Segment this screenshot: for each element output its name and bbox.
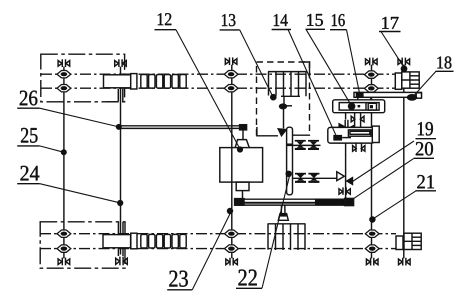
steering box funnel [235, 140, 249, 148]
brake glyph front-left inner [115, 59, 127, 67]
leader 24 [40, 184, 120, 203]
brake glyph above drag link end [339, 187, 350, 194]
leader 26 [40, 108, 119, 127]
drag link upper line [235, 198, 353, 200]
bracket double line rear-left [118, 222, 123, 256]
axle center line front upper [41, 73, 396, 75]
axle center line front lower [41, 87, 396, 89]
control bar (16/18) [354, 92, 422, 101]
leader 17 [381, 32, 404, 67]
wheel symbol A1 [295, 140, 306, 150]
node dot 21 [369, 216, 375, 222]
leader 12 [176, 30, 240, 149]
wire dashed-box bottom to arrow [257, 127, 278, 136]
node dot 24 [117, 200, 123, 206]
lower valve (14) [328, 126, 379, 143]
tie rod (front) [119, 126, 240, 129]
flow divider diamonds rear-right [365, 230, 379, 252]
label 12 [155, 13, 177, 30]
motor front-right body [402, 72, 419, 88]
drag link thick right segment [315, 199, 352, 205]
leader 16 [347, 30, 360, 95]
stems below lower valve with brake glyph [356, 143, 362, 152]
label 22 [236, 270, 262, 289]
label 16 [330, 14, 347, 30]
wheel symbol B1 [295, 173, 306, 183]
label 17 [379, 17, 401, 32]
brake glyph front-right [366, 58, 378, 66]
flow divider diamonds front-center [224, 71, 238, 92]
row line A [287, 144, 321, 146]
drag link left cap [235, 199, 244, 206]
node dot 13 [270, 94, 277, 101]
kingpin line left-inner x=120.5 [120, 67, 122, 255]
check valve pair between valves [338, 120, 354, 132]
drag link lower line [235, 204, 353, 206]
kingpin line far-right x=403.8 [403, 65, 405, 259]
axle housing front-left [104, 74, 137, 89]
kingpin line right x=371.5 [371, 65, 373, 259]
pump lens below comb [280, 96, 293, 128]
kingpin line left x=63.9 [63, 67, 65, 259]
label 26 [17, 91, 39, 109]
coupling rings front axle [141, 75, 186, 89]
wire rack top to dashed-box corner [292, 134, 311, 136]
brake glyph front-center [225, 57, 237, 65]
transfer case comb rear [268, 224, 306, 250]
wheel symbol B2 [308, 173, 319, 183]
gear box lower stub [236, 182, 249, 191]
axle center line rear lower [40, 248, 396, 250]
leader 15 [306, 29, 352, 106]
dashed box solid corner [303, 62, 310, 73]
flow divider diamonds rear-left [57, 230, 71, 252]
label 18 [436, 56, 454, 71]
brake glyph front-left outer [58, 59, 70, 67]
upper valve (15) [333, 100, 385, 113]
drag link right end block [345, 198, 354, 205]
label 20 [414, 142, 434, 158]
flow divider diamonds rear-center [225, 230, 239, 252]
node dot 12 [237, 146, 243, 152]
label 19 [416, 122, 437, 139]
label 14 [272, 14, 291, 29]
down arrow at rack top [278, 129, 286, 136]
node dot 22 [286, 171, 292, 177]
leader 13 [240, 30, 273, 97]
leader 22 [262, 173, 290, 288]
brake glyph rear-far-right [399, 258, 411, 266]
dashed box (transfer case enclosure) [257, 62, 310, 136]
leader 18 [414, 71, 437, 96]
rack bar [287, 127, 293, 195]
flow divider diamonds front-right [364, 71, 378, 92]
label 21 [416, 175, 437, 191]
node dot 23 [227, 208, 233, 214]
node dot 17 [401, 65, 408, 72]
valve column line x=345.6 [345, 113, 347, 199]
leader 21 [373, 191, 416, 219]
node dot 26 [116, 124, 122, 130]
wheel symbol A2 [308, 140, 319, 150]
transfer case comb front [268, 72, 307, 97]
axle housing rear-left [103, 233, 137, 249]
wheel box rear-left [40, 222, 125, 268]
brake glyph rear-left outer [58, 258, 70, 266]
check valve hollow+black on column [337, 172, 353, 186]
axle center line rear upper [40, 233, 396, 235]
brake glyph below lower valve [353, 146, 365, 152]
tie rod end cap [240, 125, 247, 130]
label 15 [306, 14, 326, 29]
brake glyph rear-left inner [116, 257, 128, 266]
steering shaft x=231.8 [231, 65, 233, 258]
brake glyph mid column [351, 116, 364, 122]
coupling rings rear axle [141, 234, 186, 248]
motor rear-right body [404, 233, 421, 249]
label 24 [17, 166, 40, 184]
brake glyph front-far-right [398, 58, 410, 66]
row line B [293, 177, 340, 179]
stub to drag link [242, 191, 244, 199]
wheel box front-left [41, 54, 125, 102]
label 13 [220, 14, 240, 30]
bracket double line front-left [106, 89, 123, 102]
motor front-right bracket [395, 73, 402, 89]
leader 25 [40, 146, 62, 152]
steering gear box [220, 148, 263, 183]
flow divider diamonds front-left [57, 71, 71, 92]
steering column link [242, 130, 244, 140]
leader 23 [192, 211, 231, 290]
pitman cup on rear case [278, 206, 288, 221]
label 25 [17, 128, 39, 146]
leader 14 [288, 30, 337, 137]
leader 20 [353, 159, 414, 200]
drag link middle stripe [235, 202, 352, 204]
rack break line [287, 143, 293, 145]
leader 19 [353, 141, 415, 182]
stems below upper valve with brake glyph [355, 113, 361, 128]
riser lines bar to valve [358, 97, 371, 100]
motor rear-right bracket [396, 236, 403, 250]
brake glyph rear-center [226, 258, 238, 266]
node dot 25 [61, 149, 67, 155]
brake glyph rear-right [366, 258, 378, 266]
label 23 [167, 271, 192, 290]
